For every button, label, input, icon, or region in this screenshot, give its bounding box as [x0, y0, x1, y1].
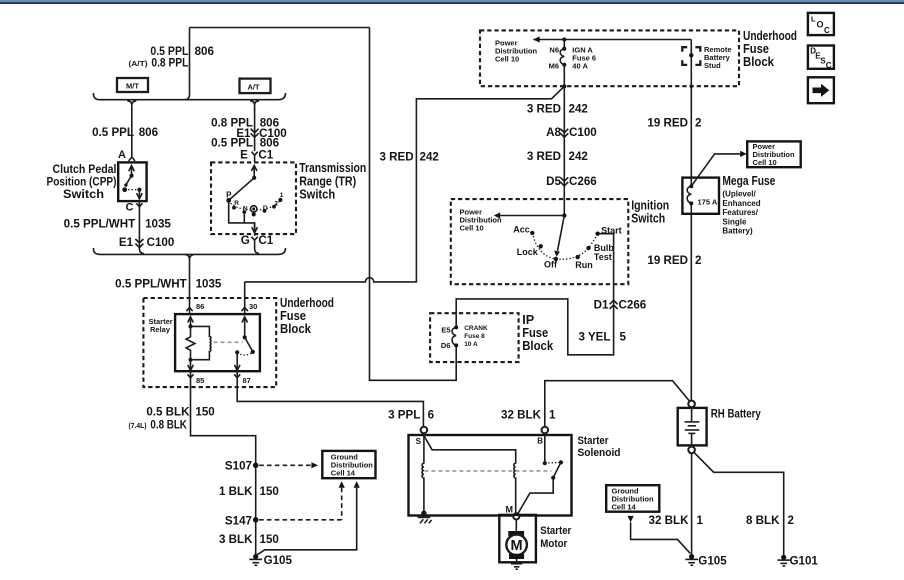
svg-text:(A/T): (A/T) — [129, 59, 149, 68]
svg-text:19 RED: 19 RED — [647, 254, 688, 267]
svg-text:Cell 14: Cell 14 — [331, 469, 356, 478]
svg-text:L: L — [811, 15, 816, 24]
svg-text:M/T: M/T — [126, 81, 139, 90]
svg-text:C100: C100 — [569, 126, 597, 139]
svg-text:Cell 14: Cell 14 — [612, 503, 637, 512]
svg-text:1035: 1035 — [145, 218, 171, 231]
svg-text:Test: Test — [594, 252, 612, 262]
svg-text:30: 30 — [249, 302, 257, 311]
svg-text:2: 2 — [695, 254, 701, 267]
svg-text:87: 87 — [243, 376, 251, 385]
svg-text:D5: D5 — [546, 175, 561, 188]
svg-text:Enhanced: Enhanced — [722, 199, 760, 208]
svg-text:8 BLK: 8 BLK — [746, 514, 780, 527]
svg-text:Solenoid: Solenoid — [578, 447, 621, 459]
svg-text:P: P — [226, 190, 232, 199]
svg-text:0.5 BLK: 0.5 BLK — [146, 406, 190, 419]
svg-text:242: 242 — [420, 151, 439, 164]
svg-text:0.5 PPL/WHT: 0.5 PPL/WHT — [115, 278, 187, 291]
svg-text:C100: C100 — [147, 236, 175, 249]
svg-text:Start: Start — [601, 225, 622, 235]
svg-text:Relay: Relay — [150, 325, 171, 334]
svg-text:S107: S107 — [225, 460, 252, 473]
svg-text:C1: C1 — [258, 234, 273, 247]
svg-text:C: C — [126, 201, 134, 213]
svg-text:175 A: 175 A — [698, 198, 718, 207]
svg-text:3 RED: 3 RED — [527, 103, 561, 116]
svg-text:Single: Single — [722, 217, 747, 226]
svg-text:CRANK: CRANK — [464, 325, 488, 332]
svg-text:C266: C266 — [619, 299, 647, 312]
svg-text:E5: E5 — [441, 326, 450, 335]
svg-text:Fuse 8: Fuse 8 — [464, 333, 485, 340]
svg-text:1 BLK: 1 BLK — [219, 485, 253, 498]
svg-text:RH Battery: RH Battery — [711, 408, 761, 421]
svg-text:806: 806 — [195, 45, 215, 58]
svg-text:Cell 10: Cell 10 — [495, 54, 519, 63]
svg-text:Acc: Acc — [513, 225, 530, 235]
svg-text:1: 1 — [280, 192, 284, 199]
svg-text:G101: G101 — [790, 555, 819, 568]
svg-text:(Uplevel/: (Uplevel/ — [722, 190, 756, 199]
svg-text:G105: G105 — [698, 555, 727, 568]
svg-text:242: 242 — [569, 150, 588, 163]
svg-text:Switch: Switch — [299, 187, 335, 202]
svg-text:Mega Fuse: Mega Fuse — [722, 173, 775, 188]
svg-text:D6: D6 — [441, 341, 451, 350]
svg-text:A/T: A/T — [247, 82, 260, 91]
svg-text:A: A — [118, 149, 126, 161]
svg-text:S: S — [416, 437, 422, 446]
svg-text:10 A: 10 A — [464, 341, 478, 348]
svg-text:1035: 1035 — [196, 278, 222, 291]
svg-text:1: 1 — [697, 514, 704, 527]
svg-text:Run: Run — [575, 260, 593, 270]
svg-text:M6: M6 — [549, 62, 559, 71]
svg-text:2: 2 — [274, 201, 278, 208]
svg-text:2: 2 — [695, 117, 701, 130]
svg-text:3 RED: 3 RED — [379, 151, 413, 164]
svg-text:0.8 PPL: 0.8 PPL — [151, 57, 188, 70]
svg-text:32 BLK: 32 BLK — [501, 408, 542, 421]
svg-text:Block: Block — [522, 338, 554, 353]
svg-text:C266: C266 — [569, 175, 597, 188]
svg-text:N: N — [243, 205, 248, 212]
svg-text:19 RED: 19 RED — [647, 117, 688, 130]
svg-text:C: C — [826, 61, 832, 70]
svg-text:0.5 PPL: 0.5 PPL — [92, 126, 134, 139]
svg-text:Switch: Switch — [63, 188, 104, 201]
svg-text:E: E — [240, 148, 248, 161]
svg-text:6: 6 — [428, 408, 435, 421]
svg-text:B: B — [537, 436, 543, 445]
svg-text:150: 150 — [260, 485, 279, 498]
svg-text:Features/: Features/ — [722, 208, 758, 217]
svg-text:32 BLK: 32 BLK — [649, 514, 690, 527]
svg-text:Starter: Starter — [578, 435, 610, 447]
svg-text:Block: Block — [743, 54, 775, 69]
svg-text:D1: D1 — [594, 299, 609, 312]
svg-text:Starter: Starter — [540, 525, 572, 537]
svg-text:2: 2 — [788, 514, 794, 527]
svg-text:3 RED: 3 RED — [527, 150, 561, 163]
svg-text:E1: E1 — [119, 236, 134, 249]
svg-text:A8: A8 — [546, 126, 561, 139]
svg-text:Position (CPP): Position (CPP) — [47, 176, 117, 189]
svg-text:150: 150 — [195, 406, 214, 419]
svg-text:Stud: Stud — [704, 61, 721, 70]
svg-text:Lock: Lock — [517, 247, 539, 257]
svg-text:C: C — [824, 26, 830, 35]
svg-text:3 BLK: 3 BLK — [219, 533, 253, 546]
svg-text:150: 150 — [260, 533, 279, 546]
svg-text:40 A: 40 A — [572, 62, 588, 71]
svg-text:Clutch Pedal: Clutch Pedal — [53, 163, 117, 176]
svg-text:D: D — [263, 205, 268, 212]
svg-text:Cell 10: Cell 10 — [753, 158, 777, 167]
svg-text:N6: N6 — [549, 46, 559, 55]
svg-text:G: G — [241, 234, 250, 247]
svg-text:(7.4L): (7.4L) — [129, 421, 147, 430]
svg-text:0.5 PPL/WHT: 0.5 PPL/WHT — [64, 218, 136, 231]
svg-text:S147: S147 — [225, 515, 252, 528]
svg-text:5: 5 — [620, 331, 627, 344]
svg-text:86: 86 — [196, 302, 204, 311]
svg-text:Off: Off — [544, 260, 558, 270]
svg-text:806: 806 — [139, 126, 159, 139]
svg-text:Cell 10: Cell 10 — [460, 224, 484, 233]
svg-text:G105: G105 — [264, 554, 293, 567]
svg-text:Motor: Motor — [540, 538, 568, 550]
svg-text:Switch: Switch — [631, 211, 665, 226]
svg-text:0.8 BLK: 0.8 BLK — [150, 418, 187, 431]
svg-text:R: R — [234, 200, 239, 207]
svg-text:85: 85 — [196, 376, 204, 385]
svg-text:Battery): Battery) — [722, 227, 753, 236]
svg-text:M: M — [506, 504, 514, 514]
svg-text:242: 242 — [569, 103, 588, 116]
svg-text:C1: C1 — [258, 148, 273, 161]
svg-text:3 PPL: 3 PPL — [388, 408, 420, 421]
svg-text:M: M — [511, 538, 523, 554]
svg-text:1: 1 — [549, 408, 556, 421]
svg-text:Block: Block — [280, 321, 312, 336]
svg-text:O: O — [817, 20, 824, 30]
svg-text:3 YEL: 3 YEL — [578, 331, 610, 344]
